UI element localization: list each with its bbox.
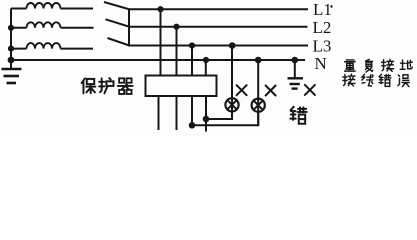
svg-text:N: N — [315, 54, 327, 73]
svg-text:L1: L1 — [313, 0, 332, 19]
svg-text:L2: L2 — [313, 18, 332, 37]
svg-text:L3: L3 — [313, 37, 332, 56]
